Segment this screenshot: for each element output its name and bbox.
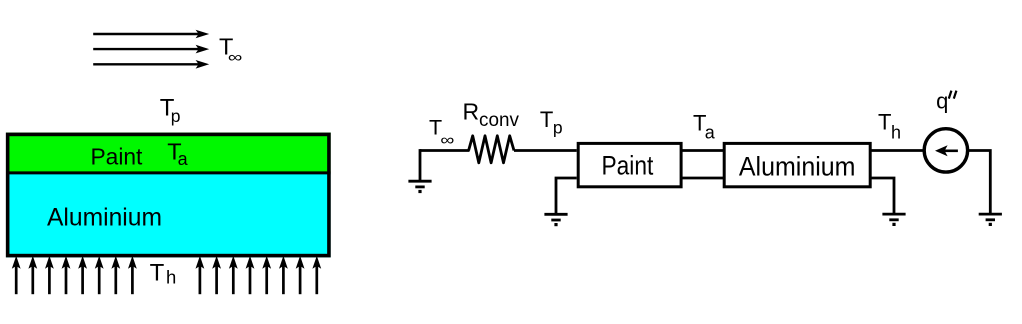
label T_p (top surface) xyxy=(160,95,181,126)
node T_p label (circuit) xyxy=(540,107,563,138)
svg-text:Paint: Paint xyxy=(602,150,654,180)
svg-text:∞: ∞ xyxy=(228,49,243,66)
ground (T_infinity node) xyxy=(408,181,431,193)
svg-text:conv: conv xyxy=(479,109,519,131)
flow arrow 3 xyxy=(93,60,209,69)
label q'' xyxy=(936,88,956,113)
svg-text:R: R xyxy=(463,99,480,125)
wire T_infinity node to resistor xyxy=(420,149,470,152)
current source q'' circle xyxy=(924,129,967,172)
heat flux arrows right group xyxy=(196,256,322,294)
svg-text:p: p xyxy=(553,118,563,138)
label R_conv xyxy=(463,99,520,131)
svg-text:q: q xyxy=(936,88,948,113)
node T_h label (circuit) xyxy=(878,110,901,143)
wire Aluminium lower terminal to ground xyxy=(870,178,894,214)
node T_infinity label (circuit) xyxy=(429,116,454,149)
ground (Paint block) xyxy=(544,214,567,226)
svg-text:Paint: Paint xyxy=(91,143,143,169)
node T_a label (circuit) xyxy=(693,110,716,142)
wire T_infinity ground stub xyxy=(419,149,422,181)
wire Paint to Aluminium upper xyxy=(681,149,724,152)
svg-text:Aluminium: Aluminium xyxy=(739,151,856,181)
label T_h (heat flux) xyxy=(150,259,177,287)
svg-text:T: T xyxy=(540,107,553,132)
svg-text:h: h xyxy=(166,267,176,288)
svg-text:p: p xyxy=(171,106,181,126)
flow arrow 2 xyxy=(93,45,209,54)
heat flux arrows left group xyxy=(12,256,137,294)
label T_a (layer) xyxy=(167,139,188,169)
svg-text:h: h xyxy=(891,122,901,142)
slab outer border xyxy=(8,134,329,255)
paint layer (green) xyxy=(6,133,331,173)
flow arrow 1 xyxy=(93,30,209,39)
ground (current source) xyxy=(979,214,1002,226)
wire current source to right ground xyxy=(967,151,990,215)
wire Aluminium to current source xyxy=(870,149,924,152)
wire resistor to Paint block xyxy=(514,149,577,152)
current source arrow xyxy=(935,145,958,156)
svg-text:∞: ∞ xyxy=(440,132,454,149)
ground (Aluminium block) xyxy=(882,214,905,226)
block Paint (thermal resistance) xyxy=(578,143,681,186)
wire Paint to Aluminium lower xyxy=(681,177,724,180)
block Aluminium (thermal resistance) xyxy=(724,143,870,186)
aluminium layer (cyan) xyxy=(6,173,331,258)
svg-text:a: a xyxy=(705,122,716,142)
paint/aluminium interface line xyxy=(6,171,331,174)
svg-text:a: a xyxy=(178,149,189,169)
wire Paint lower-left terminal to ground xyxy=(556,178,577,214)
resistor R_conv xyxy=(469,136,514,163)
svg-text:T: T xyxy=(878,110,891,135)
svg-text:Aluminium: Aluminium xyxy=(47,204,162,232)
svg-text:T: T xyxy=(150,259,165,286)
label T_infinity (flow) xyxy=(219,34,243,66)
